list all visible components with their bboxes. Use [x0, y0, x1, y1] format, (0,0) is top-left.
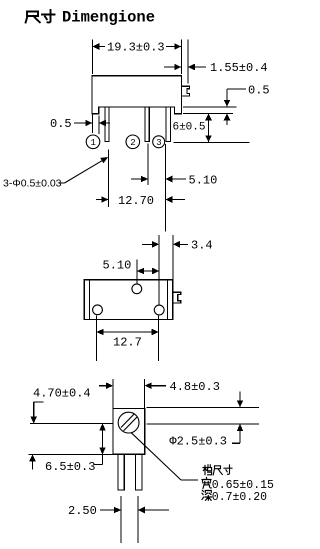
- extension line pin bottoms right: [174, 141, 250, 143]
- view3 body outline: [113, 409, 145, 455]
- dimension 6.5±0.3: [94, 424, 106, 465]
- title 尺 character: [26, 12, 40, 23]
- dimension 5.10 view1: [131, 144, 186, 186]
- svg-text:0.5: 0.5: [248, 83, 270, 97]
- dimension Φ2.5±0.3: [232, 392, 244, 444]
- extension line body bottom right: [183, 106, 237, 108]
- dimension 0.5 standoff width: [74, 115, 110, 135]
- view1 pin 3: [166, 107, 170, 141]
- view1 rotor tab: [182, 86, 190, 96]
- dimension 19.3±0.3: [92, 40, 181, 75]
- svg-text:3.4: 3.4: [191, 238, 213, 252]
- dimension 1.55±0.4: [164, 40, 206, 84]
- leader slot size: [131, 433, 198, 480]
- title 寸 character: [42, 10, 55, 22]
- view1 body outline: [92, 76, 181, 114]
- dimension 3.4 view2: [142, 235, 188, 305]
- svg-text:4.8±0.3: 4.8±0.3: [170, 380, 220, 394]
- view3 screw slot: [121, 414, 137, 431]
- svg-text:5.10: 5.10: [103, 259, 132, 273]
- view1 pin 1: [105, 107, 109, 141]
- view3 pin left: [118, 454, 124, 490]
- pin number 2: [126, 135, 140, 149]
- label 深0.7±0.20: [202, 490, 212, 500]
- view2 rotor tab: [173, 292, 180, 303]
- dimension 12.70 view1: [96, 144, 185, 232]
- arrow up body bottom left: [29, 454, 36, 469]
- view3 pin right: [136, 454, 142, 490]
- dimension 5.10 view2: [137, 260, 159, 285]
- pin number 1: [86, 135, 100, 149]
- svg-text:Φ2.5±0.3: Φ2.5±0.3: [169, 435, 227, 449]
- svg-text:2: 2: [130, 138, 135, 148]
- arrow up 0.5 partner: [224, 113, 231, 125]
- svg-text:3-Φ0.5±0.03: 3-Φ0.5±0.03: [3, 178, 62, 190]
- svg-text:2.50: 2.50: [68, 504, 97, 518]
- dimension 2.50: [100, 496, 169, 543]
- view3 screw circle: [118, 412, 139, 433]
- svg-text:1.55±0.4: 1.55±0.4: [210, 61, 268, 75]
- view2 hole top: [132, 284, 142, 294]
- svg-text:0.5: 0.5: [50, 117, 72, 131]
- view2 body outline: [84, 280, 173, 320]
- extension line screw top right: [147, 406, 260, 408]
- dimension 12.7 view2: [97, 316, 159, 362]
- dimension 6±0.5: [205, 113, 212, 142]
- view2 inner edge right: [167, 280, 169, 320]
- extension line screw center left: [30, 423, 113, 425]
- svg-text:4.70±0.4: 4.70±0.4: [33, 387, 91, 401]
- leader 4.70±0.4: [30, 402, 43, 424]
- svg-text:Dimengione: Dimengione: [62, 9, 155, 27]
- view2 hole bottom left: [93, 305, 103, 315]
- label 宽0.65±0.15: [202, 478, 211, 489]
- svg-text:12.70: 12.70: [118, 194, 154, 208]
- svg-text:6.5±0.3: 6.5±0.3: [45, 460, 95, 474]
- svg-text:6±0.5: 6±0.5: [172, 121, 205, 133]
- svg-text:1: 1: [91, 138, 96, 148]
- label 槽尺寸: [203, 465, 232, 475]
- pin number 3: [153, 136, 165, 148]
- svg-text:0.65±0.15: 0.65±0.15: [212, 479, 274, 492]
- view2 hole bottom right: [154, 305, 164, 315]
- view2 inner edge left: [88, 280, 90, 320]
- leader 0.5 top right: [224, 89, 246, 107]
- svg-text:12.7: 12.7: [113, 336, 142, 350]
- leader 3-Φ0.5±0.03: [60, 157, 109, 183]
- extension line standoff bottom right: [183, 112, 233, 114]
- svg-text:5.10: 5.10: [189, 173, 218, 187]
- dimension 4.8±0.3: [99, 379, 166, 409]
- svg-text:19.3±0.3: 19.3±0.3: [107, 41, 165, 55]
- svg-text:3: 3: [156, 138, 161, 148]
- extension line body bottom left: [29, 453, 114, 455]
- view1 pin 2: [145, 107, 149, 141]
- extension line screw bottom right: [147, 423, 260, 425]
- svg-text:0.7±0.20: 0.7±0.20: [212, 491, 267, 504]
